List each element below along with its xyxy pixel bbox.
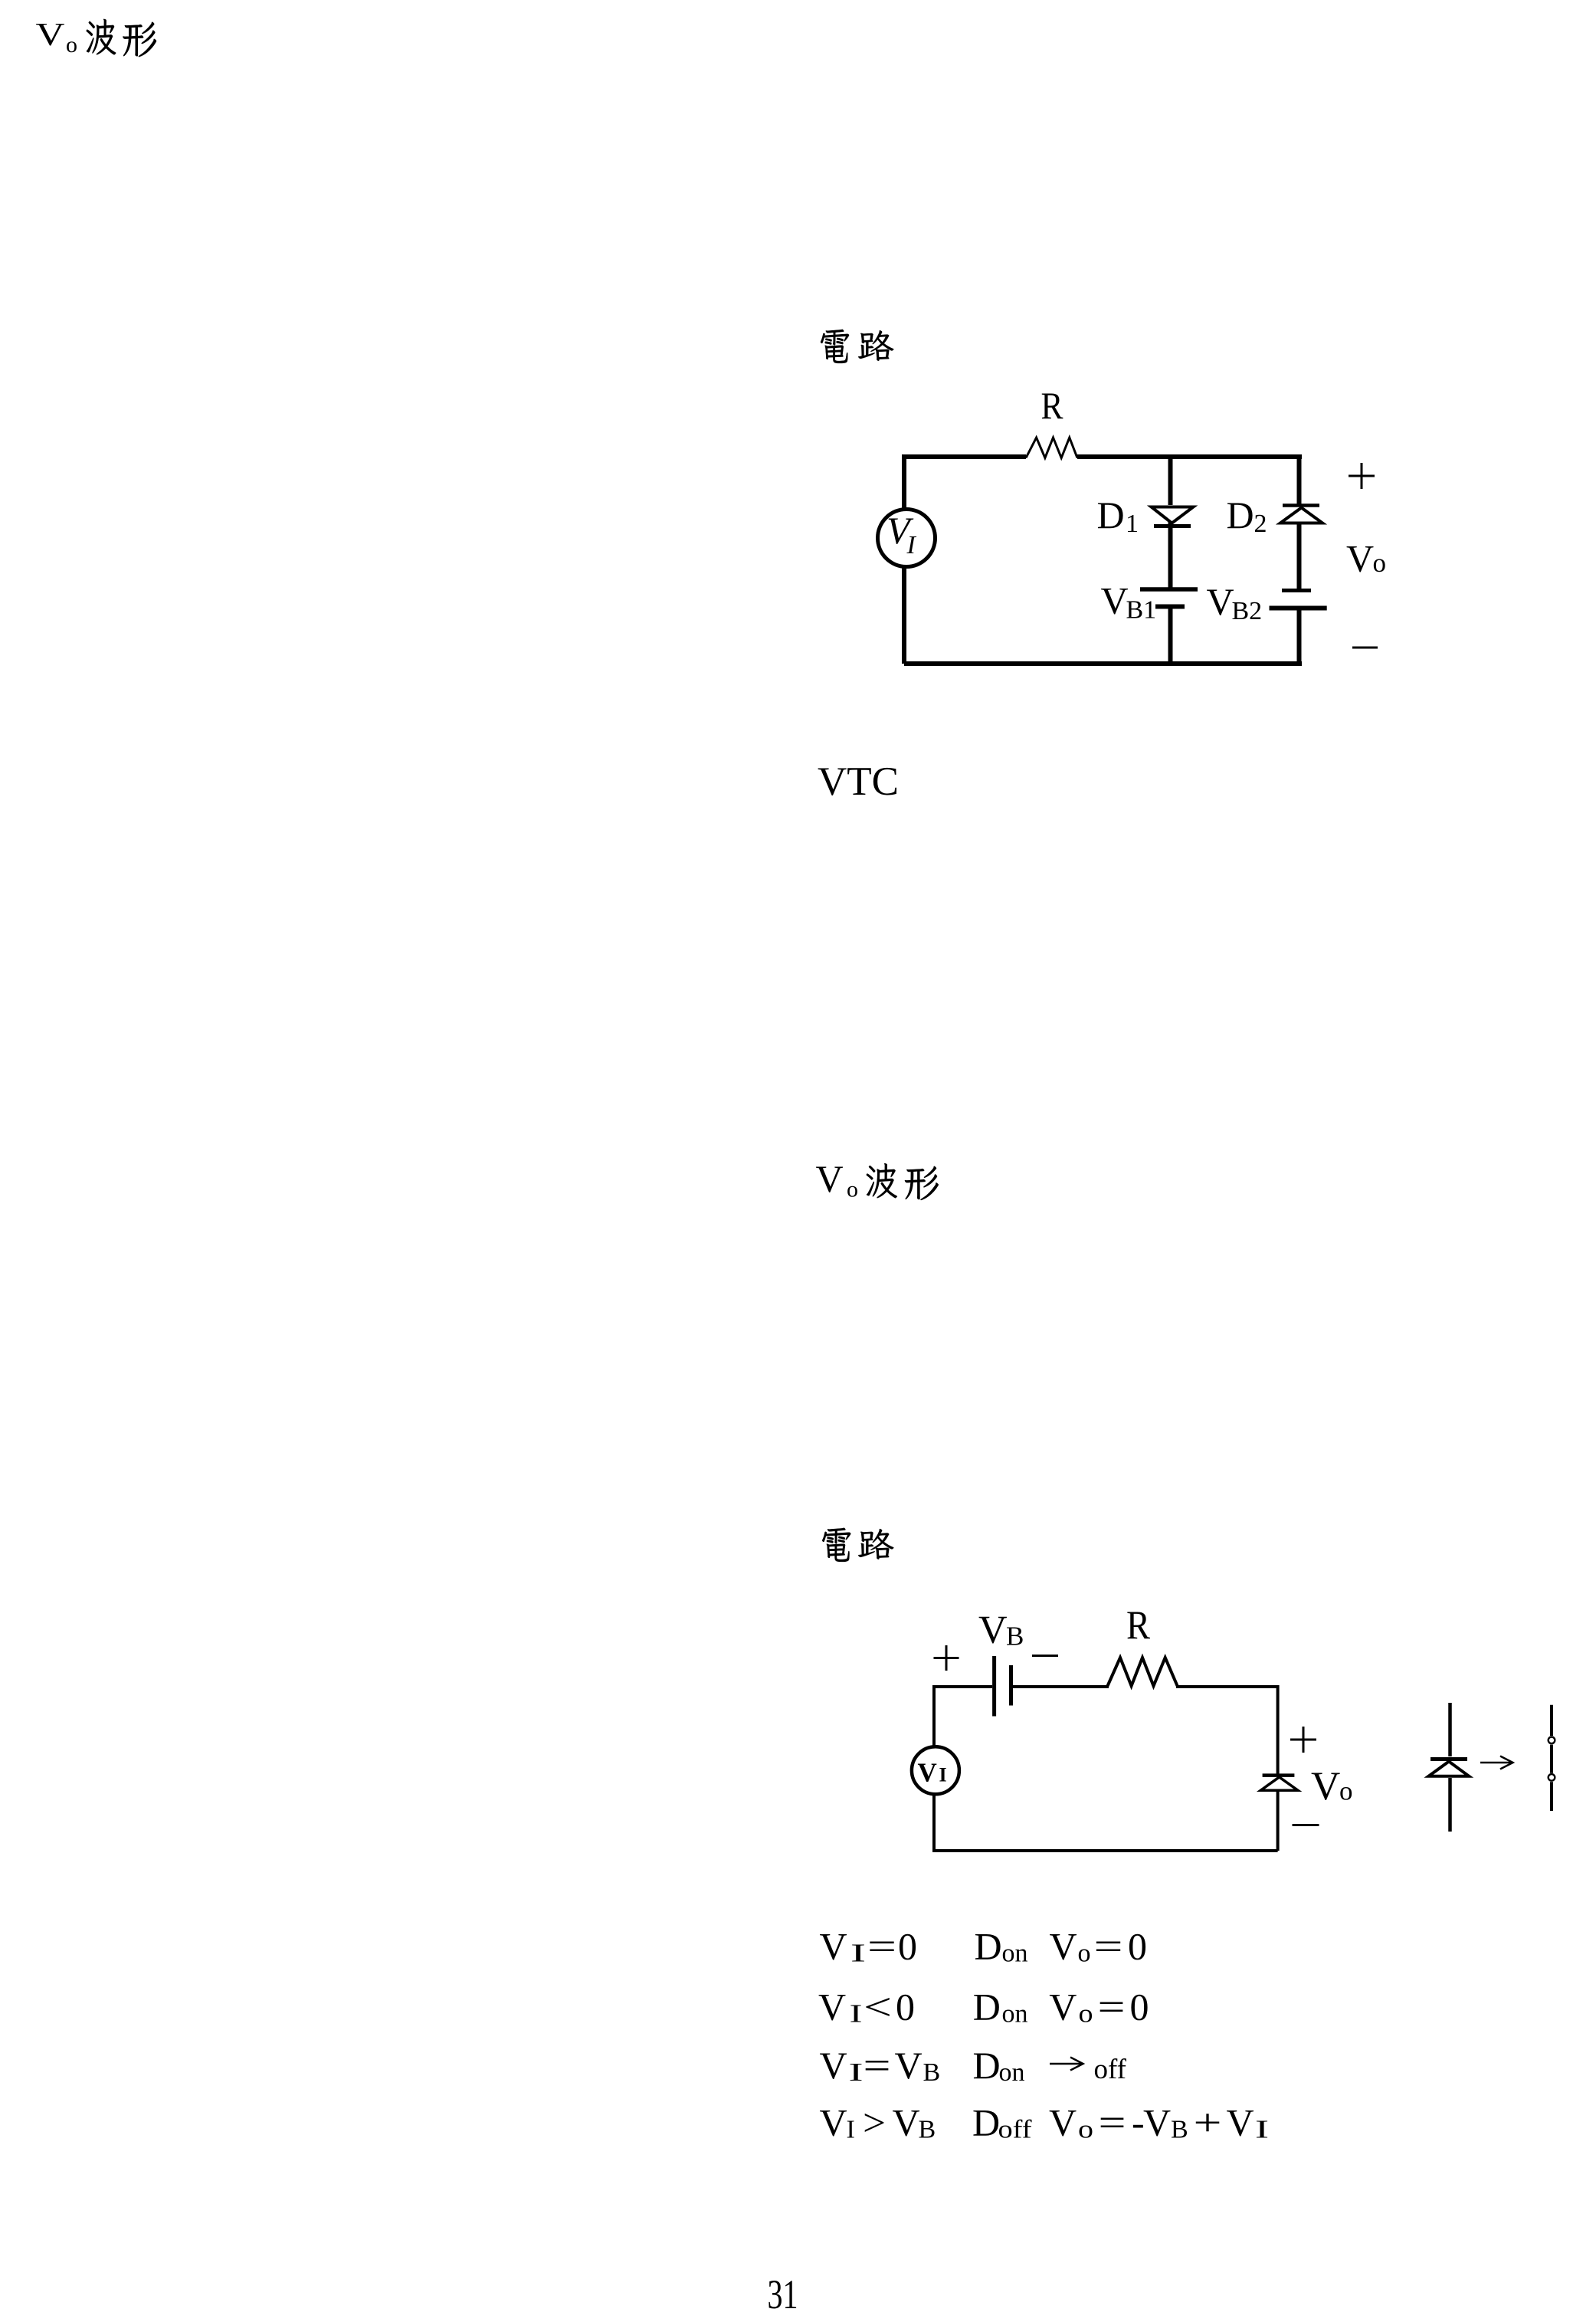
svg-text:B1: B1 <box>1126 596 1157 625</box>
svg-text:o: o <box>1078 1940 1091 1968</box>
svg-text:off: off <box>1094 2054 1127 2085</box>
svg-text:o: o <box>847 1177 858 1202</box>
svg-text:V: V <box>1346 537 1374 580</box>
svg-text:on: on <box>1002 1940 1028 1968</box>
svg-text:=: = <box>1094 1925 1123 1968</box>
svg-text:D: D <box>975 1925 1002 1968</box>
svg-text:B: B <box>1006 1622 1024 1651</box>
svg-text:R: R <box>1126 1603 1151 1648</box>
svg-text:<: < <box>864 1986 892 2028</box>
svg-text:V: V <box>1049 2101 1077 2144</box>
svg-text:D: D <box>1227 494 1254 536</box>
svg-text:+: + <box>1194 2101 1222 2144</box>
svg-text:on: on <box>999 2058 1025 2087</box>
svg-text:V: V <box>1207 580 1234 623</box>
svg-text:o: o <box>1078 2116 1093 2144</box>
svg-text:1: 1 <box>1126 510 1139 538</box>
svg-text:V: V <box>820 1925 847 1968</box>
svg-text:=: = <box>1099 2101 1126 2144</box>
svg-text:I: I <box>849 2058 864 2087</box>
svg-text:V: V <box>893 2101 920 2144</box>
svg-text:D: D <box>972 2101 1000 2144</box>
svg-text:V: V <box>820 2101 847 2144</box>
svg-text:on: on <box>1002 2000 1028 2028</box>
svg-text:V: V <box>1049 1986 1077 2028</box>
svg-text:0: 0 <box>1130 1986 1149 2028</box>
svg-text:R: R <box>1041 384 1064 427</box>
svg-text:0: 0 <box>1128 1925 1147 1968</box>
svg-text:=: = <box>1098 1986 1126 2028</box>
svg-text:B2: B2 <box>1232 597 1263 625</box>
svg-text:B: B <box>1171 2116 1188 2144</box>
svg-text:=: = <box>864 2044 891 2087</box>
svg-text:I: I <box>906 531 917 559</box>
svg-text:o: o <box>66 32 77 57</box>
svg-text:I: I <box>847 2116 855 2144</box>
svg-text:V: V <box>1050 1925 1077 1968</box>
svg-text:I: I <box>850 2000 863 2028</box>
svg-text:V: V <box>918 1758 937 1788</box>
svg-text:VTC: VTC <box>818 759 899 804</box>
svg-text:V: V <box>1311 1764 1340 1809</box>
svg-text:D: D <box>1097 494 1125 536</box>
svg-text:I: I <box>1255 2116 1269 2144</box>
svg-text:V: V <box>978 1609 1008 1652</box>
svg-text:I: I <box>939 1764 947 1786</box>
svg-text:o: o <box>1373 548 1387 578</box>
svg-text:2: 2 <box>1254 510 1267 538</box>
svg-text:B: B <box>919 2116 936 2144</box>
svg-text:0: 0 <box>898 1925 917 1968</box>
svg-text:o: o <box>1079 2000 1093 2028</box>
svg-text:31: 31 <box>768 2271 798 2317</box>
svg-text:V: V <box>820 2044 847 2087</box>
svg-text:V: V <box>816 1157 844 1200</box>
svg-text:V: V <box>1227 2101 1254 2144</box>
svg-text:o: o <box>1339 1776 1353 1806</box>
svg-text:off: off <box>998 2116 1033 2144</box>
svg-text:D: D <box>973 1986 1001 2028</box>
svg-text:>: > <box>863 2101 886 2144</box>
svg-text:V: V <box>895 2044 923 2087</box>
svg-text:0: 0 <box>896 1986 915 2028</box>
svg-text:I: I <box>850 1940 866 1968</box>
svg-text:V: V <box>1143 2101 1171 2144</box>
svg-text:D: D <box>973 2044 1001 2087</box>
svg-text:V: V <box>1101 579 1129 622</box>
svg-text:V: V <box>818 1986 846 2028</box>
svg-text:=: = <box>867 1925 896 1968</box>
svg-text:B: B <box>923 2058 941 2087</box>
svg-text:V: V <box>36 18 65 53</box>
